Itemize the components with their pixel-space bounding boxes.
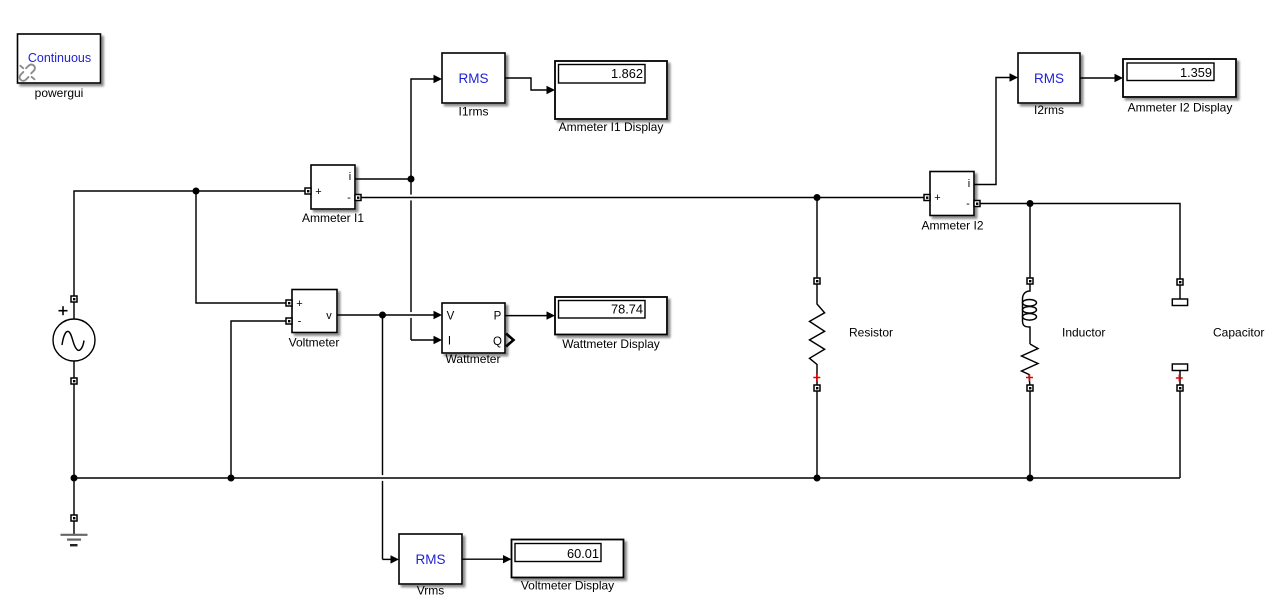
port square: ammeter I1 + input: [305, 188, 311, 194]
Capacitor branch C1: [1172, 285, 1187, 478]
svg-text:+: +: [296, 298, 302, 310]
junction J5 (resistor tap): [814, 194, 821, 201]
wire: ammeter I1 i output to junction J4: [355, 178, 411, 180]
svg-text:RMS: RMS: [459, 71, 489, 86]
wattmeter Q unconnected chevron: [506, 334, 514, 347]
Ammeter I1 block: [311, 165, 355, 209]
svg-text:i: i: [349, 171, 351, 183]
wire: ammeter I2 - output to capacitor branch: [980, 204, 1180, 280]
wire: J1 down to voltmeter +: [196, 191, 286, 303]
Ammeter I2 Display block: [1123, 59, 1236, 97]
wire: source + up to top rail: [74, 191, 305, 296]
I2rms RMS block: [1018, 53, 1080, 103]
svg-text:Continuous: Continuous: [28, 51, 91, 65]
svg-text:Ammeter I1: Ammeter I1: [302, 211, 364, 225]
junction J4: [408, 176, 415, 183]
wire: Vrms out to display: [462, 558, 504, 560]
svg-text:78.74: 78.74: [611, 301, 643, 316]
wire: J6 to wattmeter V: [383, 314, 435, 316]
wire: J4 down to wattmeter I (with crossover gaps): [411, 179, 435, 340]
wire: wattmeter P to display: [505, 315, 548, 317]
port square: source -: [71, 378, 77, 384]
svg-text:v: v: [326, 310, 332, 322]
svg-text:+: +: [315, 186, 321, 198]
junction J2 (ground tap): [71, 475, 78, 482]
junction J6: [379, 312, 386, 319]
Resistor branch R1: [810, 198, 825, 479]
svg-text:Resistor: Resistor: [849, 326, 893, 340]
arrowhead into Vrms: [391, 555, 400, 563]
svg-text:1.862: 1.862: [611, 66, 643, 81]
svg-text:1.359: 1.359: [1180, 65, 1212, 80]
svg-text:I1rms: I1rms: [459, 105, 489, 119]
port square: ammeter I1 - output: [355, 195, 361, 201]
port square: resistor bottom: [814, 385, 820, 391]
wire: voltmeter - to bottom rail: [231, 321, 286, 478]
Ammeter I1 Display block: [555, 61, 667, 119]
svg-text:P: P: [494, 311, 502, 323]
arrowhead into I1rms: [434, 75, 443, 83]
wire: J4 up to I1rms: [411, 79, 435, 179]
arrowhead into Voltmeter Display: [503, 555, 512, 563]
svg-text:Ammeter I1 Display: Ammeter I1 Display: [559, 120, 664, 134]
Voltmeter Display block: [512, 540, 624, 578]
arrowhead into Ammeter I1 Display: [547, 86, 556, 94]
Voltmeter block: [292, 290, 337, 333]
red plus on resistor: [813, 374, 820, 381]
Wattmeter Display block: [555, 297, 667, 335]
powergui U1: [18, 34, 101, 83]
arrowhead into wattmeter display: [547, 311, 556, 319]
svg-text:powergui: powergui: [35, 86, 84, 100]
port square: ammeter I2 - output: [974, 201, 980, 207]
svg-text:Voltmeter Display: Voltmeter Display: [521, 579, 614, 593]
junction J8 (inductor tap): [1027, 200, 1034, 207]
port square: voltmeter - input: [286, 318, 292, 324]
wire: ground drop: [73, 478, 75, 515]
AC voltage source V1: [53, 302, 95, 379]
svg-text:-: -: [966, 198, 970, 210]
port square: capacitor top: [1177, 279, 1183, 285]
arrowhead into Ammeter I2 Display: [1115, 74, 1124, 82]
svg-text:Q: Q: [493, 336, 502, 348]
wire: ammeter I2 i output up to I2rms: [974, 78, 1011, 185]
svg-text:60.01: 60.01: [567, 546, 599, 561]
ground G1: [61, 521, 88, 545]
svg-text:Inductor: Inductor: [1062, 326, 1105, 340]
arrowhead into I2rms: [1010, 73, 1019, 81]
svg-text:I: I: [448, 336, 451, 348]
port square: capacitor bottom: [1177, 385, 1183, 391]
svg-text:-: -: [347, 192, 351, 204]
Ammeter I2 block: [930, 172, 974, 216]
Wattmeter block: [442, 303, 505, 353]
arrowhead into wattmeter I: [434, 336, 443, 344]
svg-text:Ammeter I2 Display: Ammeter I2 Display: [1128, 101, 1233, 115]
junction J7 (resistor bottom rail): [814, 475, 821, 482]
I1rms RMS block: [442, 53, 505, 103]
svg-text:RMS: RMS: [1034, 71, 1064, 86]
svg-text:Voltmeter: Voltmeter: [289, 336, 340, 350]
svg-text:Wattmeter: Wattmeter: [446, 352, 501, 366]
svg-text:i: i: [968, 178, 970, 190]
svg-text:Wattmeter Display: Wattmeter Display: [562, 337, 660, 351]
junction J3 (voltmeter - tap): [228, 475, 235, 482]
wire: bottom rail: [74, 477, 1180, 479]
wire: source - down to bottom rail: [73, 384, 75, 478]
port square: inductor top: [1027, 278, 1033, 284]
wire: I1rms out to display (step): [505, 78, 548, 90]
junction J9 (inductor bottom rail): [1027, 475, 1034, 482]
wire: J6 down to Vrms (gap at bottom rail): [383, 315, 392, 559]
powergui broken-link icon: [18, 63, 36, 82]
port square: ammeter I2 + input: [924, 195, 930, 201]
port square: source +: [71, 296, 77, 302]
port square: inductor bottom: [1027, 385, 1033, 391]
svg-text:Ammeter I2: Ammeter I2: [921, 219, 983, 233]
arrowhead into wattmeter V: [434, 311, 443, 319]
svg-text:V: V: [447, 311, 455, 323]
svg-text:Vrms: Vrms: [417, 584, 445, 598]
wire: voltmeter v output to junction J6: [337, 314, 383, 316]
Inductor branch L1: [1022, 204, 1039, 479]
svg-text:-: -: [298, 316, 302, 328]
port square: voltmeter + input: [286, 300, 292, 306]
Vrms RMS block: [399, 534, 462, 584]
node junction J1: [193, 188, 200, 195]
svg-text:+: +: [934, 192, 940, 204]
svg-text:I2rms: I2rms: [1034, 103, 1064, 117]
red plus on inductor: [1026, 374, 1033, 381]
red plus on capacitor: [1176, 375, 1183, 382]
port square: ground: [71, 515, 77, 521]
wire: I2rms out to display: [1080, 77, 1116, 79]
source plus sign: [59, 306, 68, 315]
svg-text:Capacitor: Capacitor: [1213, 326, 1264, 340]
svg-text:RMS: RMS: [416, 552, 446, 567]
wire: ammeter I1 - to ammeter I2 +: [361, 197, 924, 199]
port square: resistor top: [814, 278, 820, 284]
